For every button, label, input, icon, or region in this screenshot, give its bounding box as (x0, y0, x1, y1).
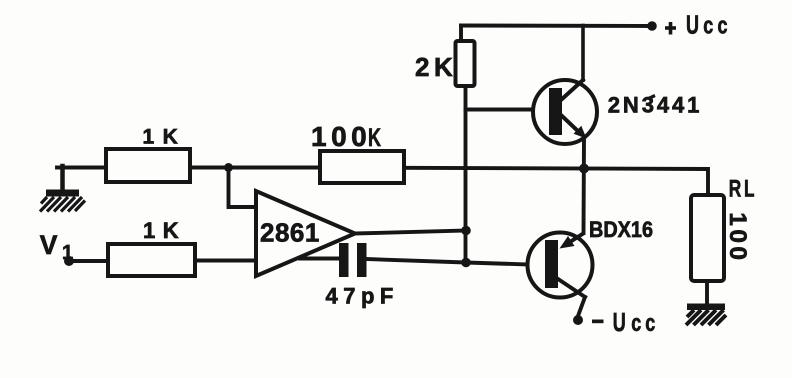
svg-text:c: c (703, 13, 713, 40)
svg-text:U: U (686, 10, 699, 40)
svg-text:2861: 2861 (260, 217, 320, 247)
svg-text:c: c (631, 310, 641, 337)
svg-text:BDX16: BDX16 (589, 217, 653, 242)
svg-text:c: c (718, 13, 728, 40)
svg-text:100: 100 (311, 121, 371, 152)
svg-text:2K: 2K (415, 52, 457, 82)
svg-text:1: 1 (62, 242, 73, 264)
svg-text:c: c (645, 310, 655, 337)
svg-text:1K: 1K (143, 126, 187, 149)
svg-text:1K: 1K (143, 218, 186, 243)
svg-text:47pF: 47pF (326, 284, 399, 309)
svg-text:U: U (613, 307, 626, 337)
svg-text:100: 100 (724, 212, 751, 263)
svg-text:L: L (744, 176, 755, 203)
svg-text:K: K (368, 124, 381, 152)
svg-text:R: R (729, 176, 742, 203)
svg-text:V: V (40, 230, 58, 260)
